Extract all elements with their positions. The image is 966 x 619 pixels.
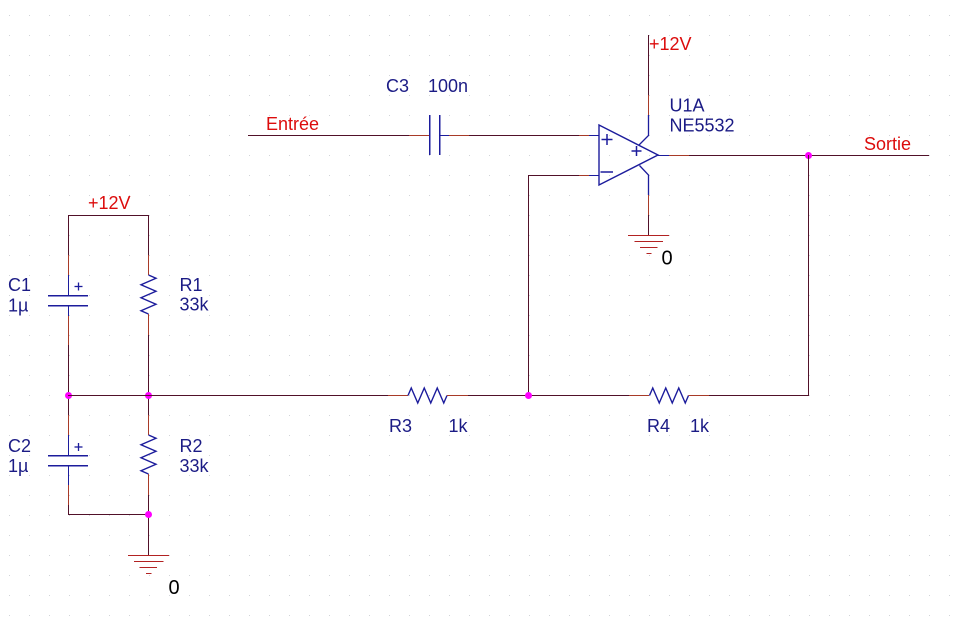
svg-text:0: 0: [662, 248, 673, 270]
svg-text:R3: R3: [389, 416, 412, 436]
pin R4 right: [689, 395, 710, 397]
pin R1 top: [148, 255, 150, 275]
pin C3 right: [449, 135, 469, 137]
svg-text:NE5532: NE5532: [670, 116, 735, 136]
wire bus to R2: [148, 395, 150, 415]
wire bus to C2: [68, 395, 70, 415]
pin C1 bottom: [68, 316, 70, 345]
pin op-amp output: [658, 155, 689, 157]
wire C3 to op-amp + input: [469, 135, 579, 137]
svg-text:1k: 1k: [449, 416, 469, 436]
svg-text:33k: 33k: [180, 295, 210, 315]
svg-text:1µ: 1µ: [8, 296, 28, 316]
junction output: [805, 152, 812, 159]
pin op-amp + input: [579, 135, 599, 137]
wire junction to ground: [148, 515, 150, 556]
wire R2 to bottom junction: [148, 495, 150, 515]
svg-text:R4: R4: [647, 416, 670, 436]
capacitor C3: [430, 115, 450, 155]
resistor R1: [141, 275, 156, 314]
op-amp U1A triangle: [599, 125, 658, 185]
pin R1 bottom: [148, 314, 150, 335]
op-amp V+ mark: [632, 146, 642, 156]
svg-text:Entrée: Entrée: [266, 114, 319, 134]
op-amp + input mark: [602, 134, 613, 145]
resistor R2: [141, 435, 156, 474]
svg-text:C1: C1: [8, 275, 31, 295]
feedback wire from bus junction up to - input: [529, 176, 580, 396]
junction bus/C column: [65, 392, 72, 399]
wire Entrée: [248, 135, 409, 137]
svg-text:100n: 100n: [428, 76, 468, 96]
wire R1 to bus: [148, 335, 150, 395]
wire C1 to bus: [68, 345, 70, 395]
pin op-amp - input: [579, 175, 599, 177]
junction feedback: [525, 392, 532, 399]
svg-text:+12V: +12V: [88, 193, 131, 213]
wire V- to ground: [648, 215, 650, 235]
pin C1 top: [68, 255, 70, 275]
svg-text:0: 0: [169, 577, 180, 599]
wire output to Sortie: [689, 155, 929, 157]
svg-text:33k: 33k: [180, 456, 210, 476]
wire bus left: [68, 395, 388, 397]
wire +12V bar horizontal: [68, 215, 149, 217]
plus polarity mark C2: [75, 443, 83, 451]
wire R3 to R4: [468, 395, 629, 397]
junction bus/R column: [145, 392, 152, 399]
op-amp - input mark: [601, 171, 614, 173]
junction bottom: [145, 511, 152, 518]
wire output junction down to bus: [709, 155, 809, 396]
pin R2 bottom: [148, 474, 150, 495]
pin C2 top: [68, 415, 70, 435]
svg-text:R2: R2: [180, 436, 203, 456]
ground (left): [128, 556, 169, 574]
wire V+ to +12V: [648, 35, 650, 95]
svg-text:C2: C2: [8, 436, 31, 456]
pin op-amp V- (bottom): [640, 166, 649, 216]
pin C2 bottom: [68, 485, 70, 505]
svg-text:1k: 1k: [690, 416, 710, 436]
pin R3 left: [388, 395, 408, 397]
resistor R4: [650, 388, 689, 403]
pin op-amp V+ (top): [639, 95, 649, 145]
capacitor C1: [48, 275, 88, 316]
svg-text:1µ: 1µ: [8, 456, 28, 476]
ground (right): [628, 236, 669, 254]
svg-text:R1: R1: [180, 275, 203, 295]
pin C3 left: [409, 135, 429, 137]
svg-text:Sortie: Sortie: [864, 134, 911, 154]
pin R3 right: [447, 395, 468, 397]
wire C2 bottom L to junction: [69, 505, 149, 515]
resistor R3: [408, 388, 447, 403]
pin R4 left: [629, 395, 649, 397]
capacitor C2: [48, 435, 88, 485]
svg-text:+12V: +12V: [649, 34, 692, 54]
pin R2 top: [148, 415, 150, 435]
wire right column down to R1: [148, 215, 150, 255]
wire left column down to C1: [68, 215, 70, 255]
svg-text:U1A: U1A: [670, 96, 705, 116]
svg-text:C3: C3: [386, 76, 409, 96]
plus polarity mark C1: [75, 283, 83, 291]
